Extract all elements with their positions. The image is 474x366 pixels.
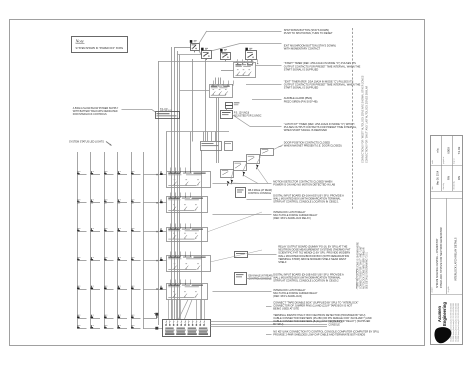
svg-text:6009: 6009 (446, 147, 450, 154)
svg-text:n/a: n/a (436, 148, 440, 153)
svg-text:scale: scale (432, 160, 434, 164)
svg-text:WHEN MAGNET PRESENT (I.E. DOOR: WHEN MAGNET PRESENT (I.E. DOOR CLOSED) (284, 144, 342, 148)
svg-text:AUTOLOCK ZONE ARE VERY SIMILAR: AUTOLOCK ZONE ARE VERY SIMILAR (363, 247, 366, 289)
svg-text:CONNECTIONS FOR “WEST” AUTOLOC: CONNECTIONS FOR “WEST” AUTOLOCK ZONE ARE… (362, 75, 365, 163)
svg-text:CABLE CONNECTOR WESTERN (B (D): CABLE CONNECTOR WESTERN (B (D) (3 P/N FE… (273, 319, 370, 323)
svg-text:BEING USED AT SITE: BEING USED AT SITE (273, 307, 299, 311)
svg-text:START SIGNAL IS SUPPLIED: START SIGNAL IS SUPPLIED (284, 67, 319, 71)
svg-text:checked by: checked by (454, 181, 456, 189)
svg-text:(REF: RF1V-3A1BL-D24): (REF: RF1V-3A1BL-D24) (273, 294, 302, 298)
svg-text:SHRUM SCIENCE CENTRE – CHEMIST: SHRUM SCIENCE CENTRE – CHEMISTRY (436, 238, 439, 288)
svg-text:CONTROL CONSOLE: CONTROL CONSOLE (248, 193, 271, 195)
svg-text:SHELF: SHELF (278, 260, 287, 264)
svg-text:P.S. 12V (ADJ): P.S. 12V (ADJ) (234, 111, 250, 114)
svg-text:RN: RN (446, 176, 450, 180)
svg-text:CONNECTIONS FOR "SHUT" AND "LA: CONNECTIONS FOR "SHUT" AND "LAB" (360, 246, 363, 289)
svg-text:ADJUSTED FOR 13.8VDC: ADJUSTED FOR 13.8VDC (234, 114, 262, 117)
svg-text:INTERLOCK LATCH RELAY DETAILS: INTERLOCK LATCH RELAY DETAILS (454, 237, 458, 281)
svg-text:STRIP) AT CONTROL CONSOLE LOCA: STRIP) AT CONTROL CONSOLE LOCATION IN C9… (273, 279, 339, 283)
svg-text:CONNECTIONS FOR “SHUT” AND “LA: CONNECTIONS FOR “SHUT” AND “LAB” AUTOLOC… (366, 85, 369, 163)
svg-text:Engineering: Engineering (442, 302, 447, 326)
svg-text:Note: Note (75, 39, 84, 44)
svg-text:RN: RN (457, 176, 461, 180)
svg-text:DB-9 MALE (AT REAR): DB-9 MALE (AT REAR) (248, 189, 272, 192)
svg-text:CONSOLE: CONSOLE (329, 325, 341, 327)
svg-text:DB-9 MALE (AT REAR): DB-9 MALE (AT REAR) (249, 274, 273, 277)
svg-text:PROVIDE 2-PAIR SHIELDED LOW-CA: PROVIDE 2-PAIR SHIELDED LOW-CAP CABLE AN… (273, 333, 365, 337)
svg-text:POWER IS ON AND NO MOTION DETE: POWER IS ON AND NO MOTION DETECTED IN LA… (273, 182, 335, 186)
svg-text:dwg no: dwg no (454, 159, 456, 164)
svg-text:(REF: RF1V-3A1BL-D24 RELAY): (REF: RF1V-3A1BL-D24 RELAY) (273, 216, 311, 220)
svg-text:WITH MOMENTARY CONTACT: WITH MOMENTARY CONTACT (284, 47, 321, 51)
svg-text:SEE DETAILS ON DRAWING T2.01: SEE DETAILS ON DRAWING T2.01 (365, 251, 368, 289)
svg-text:WHEN START SIGNAL IS REMOVED: WHEN START SIGNAL IS REMOVED (284, 128, 327, 132)
svg-text:TERMINAL STRIP) ABOVE MODERN S: TERMINAL STRIP) ABOVE MODERN SHELF NEAR … (278, 257, 346, 261)
svg-text:SYSTEM SHOWN IN "POWER OFF" ST: SYSTEM SHOWN IN "POWER OFF" STATE (76, 47, 124, 50)
svg-text:May 26, 2014: May 26, 2014 (438, 170, 440, 185)
svg-text:START SIGNAL IS SUPPLIED: START SIGNAL IS SUPPLIED (284, 86, 319, 90)
svg-text:(BAT. BACKUP): (BAT. BACKUP) (160, 109, 172, 112)
svg-text:drawn by: drawn by (443, 183, 445, 190)
svg-text:INTERLOCK SYSTEM FOR NEUTRON G: INTERLOCK SYSTEM FOR NEUTRON GENERATOR (440, 227, 443, 288)
svg-text:STRIP) AT CONTROL CONSOLE LOCA: STRIP) AT CONTROL CONSOLE LOCATION IN C9… (273, 200, 339, 204)
svg-text:T2.02: T2.02 (457, 146, 461, 154)
svg-text:PIEZO SIREN (P/N SX07-4B): PIEZO SIREN (P/N SX07-4B) (284, 99, 318, 103)
svg-text:SYSTEM STATUS LED LIGHTS: SYSTEM STATUS LED LIGHTS (69, 141, 104, 144)
svg-text:FOR INTERLOCK CONTROLS: FOR INTERLOCK CONTROLS (73, 113, 107, 116)
svg-text:BY SFU): BY SFU) (273, 322, 283, 326)
svg-text:PUSH TO SHUTDOWN, TURN TO RESE: PUSH TO SHUTDOWN, TURN TO RESET (284, 31, 333, 35)
